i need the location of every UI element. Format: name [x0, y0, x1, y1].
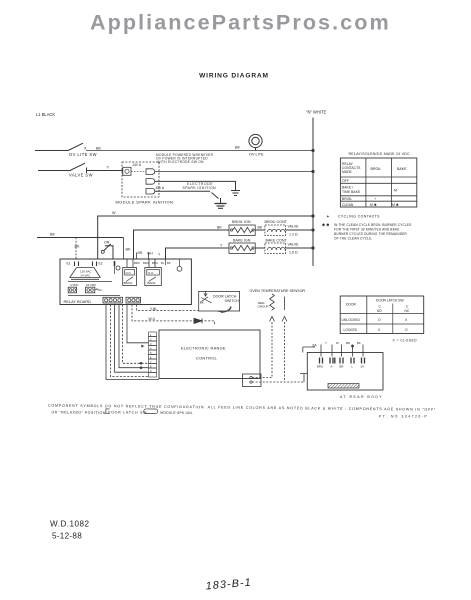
sensor lead right: [284, 297, 286, 311]
rear block pin labels: [317, 365, 364, 369]
svg-text:BR: BR: [138, 251, 143, 255]
svg-text:PT. NO 334726-P: PT. NO 334726-P: [379, 415, 428, 419]
relay BAKE: [149, 259, 155, 268]
svg-text:BAKE IGN: BAKE IGN: [233, 238, 251, 242]
drop WH into board: [148, 253, 150, 260]
wire N vertical bus: [312, 118, 314, 267]
wire BK feed to relay board: [37, 237, 124, 239]
svg-text:450 Ω: 450 Ω: [156, 186, 165, 190]
svg-text:BK: BK: [96, 147, 102, 151]
wire inside board: [68, 295, 120, 297]
wire board internal to C2: [166, 259, 180, 266]
svg-text:BROIL: BROIL: [371, 167, 382, 171]
terminal pin E2b: [114, 261, 116, 266]
drop BR into board: [136, 253, 138, 260]
relay coil K2: [86, 287, 95, 293]
svg-text:W: W: [112, 211, 116, 215]
svg-text:BAKE: BAKE: [397, 167, 407, 171]
svg-text:BK: BK: [258, 226, 263, 230]
door latch switch box: [199, 291, 240, 311]
wire L into rear block: [303, 347, 315, 353]
rear terminal block box: [307, 353, 383, 391]
transformer core: [68, 279, 112, 281]
svg-text:OV LITE: OV LITE: [249, 153, 264, 157]
svg-text:N.O.: N.O.: [148, 271, 154, 275]
wire broil cont to N: [286, 229, 313, 231]
wire L1 to VALVE SW: [38, 170, 70, 172]
svg-text:BRO: BRO: [317, 365, 324, 369]
wire drop 5: [123, 305, 149, 364]
svg-text:6A: 6A: [313, 343, 318, 347]
pin plug 3 of module: [146, 188, 155, 194]
svg-text:L: L: [352, 365, 354, 369]
svg-text:MODULE SPARK IGNITION: MODULE SPARK IGNITION: [116, 199, 174, 204]
svg-text:2A: 2A: [361, 365, 365, 369]
svg-text:4: 4: [150, 346, 152, 350]
wire plug1 to N bus: [155, 171, 313, 173]
wire OV LITE SW to lamp: [86, 150, 313, 152]
wire broil ign to broil cont: [255, 229, 265, 231]
wire plug2 to ground: [155, 181, 236, 190]
svg-text:Y-BL: Y-BL: [150, 307, 157, 311]
svg-text:X: X: [84, 147, 87, 151]
svg-text:L1 BLACK: L1 BLACK: [36, 112, 55, 117]
svg-text:24V A: 24V A: [133, 163, 142, 167]
svg-text:BK: BK: [200, 301, 204, 305]
wire dashed sensor lead 1: [252, 377, 271, 379]
arrow sensor lead 1: [270, 317, 275, 322]
svg-text:NO: NO: [377, 309, 382, 313]
spark gap blade: [212, 193, 219, 199]
wire VALVE SW to module: [87, 170, 123, 172]
ERC bottom connector: [243, 374, 262, 387]
svg-text:+: +: [327, 214, 330, 219]
wire plug3 to spark gap: [155, 190, 210, 192]
svg-text:UNLOCKED: UNLOCKED: [342, 318, 361, 322]
connector A on module input: [123, 167, 131, 175]
note clean cycle text: [322, 223, 411, 241]
svg-text:9: 9: [150, 369, 152, 373]
svg-text:BRO: BRO: [143, 261, 149, 265]
svg-text:SPARK IGNITION: SPARK IGNITION: [183, 186, 217, 190]
svg-text:M ✱: M ✱: [370, 203, 377, 207]
svg-text:X: X: [405, 318, 408, 322]
wire bake cont to N: [286, 247, 313, 249]
relay board outline: [60, 259, 191, 305]
svg-text:SWITCH: SWITCH: [225, 299, 240, 303]
wire drop 1 from board P1: [106, 305, 159, 380]
svg-text:FOR THE FIRST 30 MINUTES AND B: FOR THE FIRST 30 MINUTES AND BAKE: [334, 228, 399, 232]
svg-text:24 VDC: 24 VDC: [86, 283, 96, 287]
svg-text:OV LITE SW: OV LITE SW: [69, 152, 97, 157]
wire dashed inside module: [131, 170, 146, 172]
svg-text:VALVE: VALVE: [288, 243, 300, 247]
svg-text:BK: BK: [75, 245, 81, 249]
svg-text:DOOR LATCH SW: DOOR LATCH SW: [108, 410, 147, 414]
svg-text:DOOR LATCH: DOOR LATCH: [213, 294, 237, 298]
rear block pins: [320, 358, 365, 364]
svg-text:DOOR LATCH SW: DOOR LATCH SW: [376, 299, 404, 303]
svg-text:BK: BK: [50, 233, 56, 237]
svg-text:5-12-88: 5-12-88: [52, 532, 82, 541]
sensor resistor: [270, 294, 275, 310]
junction dots on drops: [140, 362, 143, 365]
svg-text:CYCLING CONTACTS: CYCLING CONTACTS: [338, 215, 380, 219]
svg-text:Y: Y: [220, 244, 223, 248]
svg-text:ON: ON: [104, 241, 110, 245]
wire dashed drop to board E1: [75, 238, 77, 260]
svg-text:183-B-1: 183-B-1: [205, 577, 252, 593]
wire bake ign to bake cont: [255, 247, 265, 249]
wire dashed drop BK to board: [123, 238, 125, 260]
svg-text:Y: Y: [325, 341, 327, 345]
lamp OV LITE: [249, 134, 262, 147]
wire module W to N bus and down to relay board: [98, 216, 313, 259]
svg-text:7: 7: [150, 360, 152, 364]
svg-text:BAKE /: BAKE /: [342, 186, 353, 190]
svg-text:BK: BK: [217, 226, 222, 230]
svg-text:8: 8: [150, 364, 152, 368]
wire drop 3: [115, 305, 149, 373]
svg-text:BK: BK: [357, 341, 361, 345]
junction dot on stub: [351, 345, 354, 348]
symbol door latch sw bracket: [106, 409, 110, 414]
svg-text:LOCKED: LOCKED: [344, 328, 358, 332]
wire sensor lead into rear block: [300, 374, 307, 383]
svg-text:6: 6: [150, 355, 152, 359]
svg-text:W: W: [336, 341, 339, 345]
relay coil K1: [68, 287, 76, 293]
svg-text:VALVE: VALVE: [288, 225, 300, 229]
svg-text:BR: BR: [346, 341, 350, 345]
svg-text:MODULE SPK IGN.: MODULE SPK IGN.: [160, 411, 193, 415]
svg-text:MADE: MADE: [342, 170, 353, 174]
svg-text:BROIL CONT: BROIL CONT: [265, 220, 288, 224]
connector strip P2: [126, 297, 141, 303]
svg-text:WH: WH: [147, 252, 153, 256]
svg-text:M: M: [394, 189, 397, 193]
svg-text:IN THE CLEAN CYCLE BROIL BURNE: IN THE CLEAN CYCLE BROIL BURNER CYCLES: [334, 223, 411, 227]
pin plug 1 of module: [146, 169, 155, 175]
svg-text:BROIL IGN: BROIL IGN: [232, 220, 251, 224]
svg-text:E2: E2: [99, 262, 103, 266]
svg-text:"N" WHITE: "N" WHITE: [306, 110, 326, 115]
svg-text:Y: Y: [107, 166, 110, 170]
wire drop 8 Y-BL to door latch: [137, 305, 200, 311]
wire L1 to OV LITE SW: [35, 150, 68, 152]
svg-text:A: A: [331, 365, 333, 369]
svg-text:O: O: [405, 328, 408, 332]
svg-text:TIME BAKE: TIME BAKE: [342, 190, 361, 194]
stub labels: [325, 341, 361, 345]
svg-text:BAKE: BAKE: [148, 281, 156, 285]
svg-text:OF THE CLEAN CYCLE.: OF THE CLEAN CYCLE.: [334, 237, 372, 241]
ERC pin strip: [149, 332, 157, 377]
svg-text:N.O.: N.O.: [126, 271, 132, 275]
door latch common arrow: [204, 291, 207, 296]
svg-text:OR "RELAXED" POSITION.: OR "RELAXED" POSITION.: [51, 410, 107, 415]
svg-text:4 VDC: 4 VDC: [70, 283, 79, 287]
svg-text:BR: BR: [340, 365, 344, 369]
svg-text:GROUP: GROUP: [258, 305, 269, 309]
arrow sensor lead 2: [282, 317, 287, 322]
svg-text:1: 1: [150, 333, 152, 337]
terminal labels broil bake: [134, 261, 171, 265]
svg-text:CLEAN: CLEAN: [342, 203, 354, 207]
svg-text:BK: BK: [167, 261, 171, 265]
svg-text:WITH ELECTRODE SW ON: WITH ELECTRODE SW ON: [158, 160, 205, 164]
switch VALVE SW: [70, 163, 85, 170]
svg-text:OFF: OFF: [342, 179, 349, 183]
transformer: [70, 268, 100, 278]
rear block stub wires: [320, 345, 322, 357]
wire drop 4: [119, 305, 149, 368]
svg-text:1.2 Ω: 1.2 Ω: [289, 233, 298, 237]
door latch blade: [201, 297, 212, 303]
svg-text:RELAY/SOLENOID MADE 24 VDC: RELAY/SOLENOID MADE 24 VDC: [349, 152, 410, 156]
svg-text:CONTROL: CONTROL: [196, 356, 218, 361]
rear block hatched bar: [328, 384, 359, 389]
relay BROIL: [127, 259, 133, 268]
svg-text:X = CLOSED: X = CLOSED: [393, 339, 418, 343]
svg-text:O: O: [378, 318, 381, 322]
pin plug 2 of module: [146, 179, 155, 185]
svg-text:VALVE SW: VALVE SW: [69, 173, 93, 178]
svg-text:1.6 Ω: 1.6 Ω: [289, 251, 298, 255]
svg-text:OVEN TEMPERATURE SENSOR: OVEN TEMPERATURE SENSOR: [250, 289, 306, 293]
wire BAKE row from board: [166, 248, 230, 259]
svg-text:RELAY BOARD: RELAY BOARD: [64, 299, 92, 304]
note module powered text block: [156, 153, 214, 164]
ERC electronic range control box: [159, 330, 260, 379]
svg-text:BK: BK: [126, 248, 132, 252]
terminal C2 circle: [177, 266, 182, 271]
svg-text:DOOR: DOOR: [346, 303, 357, 307]
ground electrode burner: [215, 203, 227, 205]
svg-text:Y: Y: [158, 253, 161, 257]
wire dashed sensor lead 2: [252, 381, 304, 383]
terminal E2: [93, 262, 97, 267]
module spark ignition dashed outline: [122, 162, 159, 197]
door latch lower hook: [218, 307, 232, 312]
svg-text:24 VAC: 24 VAC: [81, 274, 91, 278]
svg-text:W.D.1082: W.D.1082: [50, 520, 90, 529]
svg-text:BRO: BRO: [134, 261, 140, 265]
svg-text:AppliancePartsPros.com: AppliancePartsPros.com: [90, 10, 391, 35]
table door latch sw: [340, 296, 424, 334]
svg-text:X: X: [378, 328, 381, 332]
svg-text:BAKE CONT: BAKE CONT: [266, 238, 288, 242]
symbol module spk ign box: [144, 409, 158, 414]
svg-text:NC: NC: [405, 309, 410, 313]
svg-text:2: 2: [150, 337, 152, 341]
svg-text:M ✱: M ✱: [392, 203, 399, 207]
svg-text:+: +: [375, 197, 377, 201]
wire BROIL row from board: [134, 230, 230, 259]
junction valve wire at N: [311, 170, 314, 173]
wire drop 7 W-O with diode: [132, 305, 215, 326]
svg-text:BROIL: BROIL: [342, 197, 352, 201]
svg-text:WIRING DIAGRAM: WIRING DIAGRAM: [199, 73, 269, 80]
diode on W-O wire: [194, 318, 202, 323]
svg-text:3: 3: [150, 342, 152, 346]
connector strip P1: [103, 297, 123, 303]
svg-text:E1: E1: [67, 262, 71, 266]
wire drop 2: [111, 305, 149, 377]
switch OV LITE SW: [68, 143, 83, 150]
ground right of electrode: [231, 190, 240, 192]
svg-text:ELECTRONIC RANGE: ELECTRONIC RANGE: [181, 346, 226, 351]
svg-text:✱ ✱: ✱ ✱: [322, 223, 330, 227]
svg-text:K2: K2: [98, 288, 102, 292]
ERC pin numbers: [150, 333, 152, 373]
svg-text:BK: BK: [235, 146, 241, 150]
junction at N line and OV lite wire: [311, 149, 314, 152]
indicator circle: [116, 266, 120, 270]
svg-text:AT REAR BODY: AT REAR BODY: [340, 395, 383, 399]
svg-text:5: 5: [150, 351, 152, 355]
svg-text:W-O: W-O: [149, 317, 156, 321]
svg-text:B+: B+: [161, 261, 165, 265]
label electrode spark ignition: [183, 182, 217, 190]
svg-text:BURNER CYCLES DURING THE REMAI: BURNER CYCLES DURING THE REMAINDER: [334, 232, 407, 236]
wire drop 6: [127, 305, 149, 343]
svg-text:BROIL: BROIL: [124, 281, 133, 285]
